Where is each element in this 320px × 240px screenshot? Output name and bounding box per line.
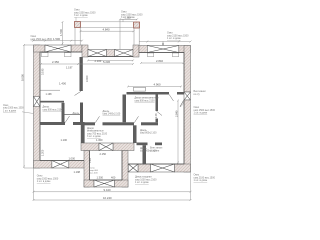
- dim line interior right vertical: [177, 100, 179, 165]
- svg-text:1.200: 1.200: [42, 149, 45, 156]
- svg-text:Дверь: Дверь: [73, 112, 81, 115]
- svg-text:2.350: 2.350: [52, 60, 59, 64]
- leader left note: [22, 112, 34, 114]
- interior wall H vertical bath: [133, 125, 137, 143]
- svg-text:1 шт. в доме: 1 шт. в доме: [37, 180, 51, 183]
- svg-text:1.400: 1.400: [59, 81, 66, 85]
- svg-text:3.195: 3.195: [41, 68, 45, 75]
- wall left exterior: [34, 45, 41, 168]
- svg-text:3 шт. в доме: 3 шт. в доме: [87, 135, 101, 138]
- wall right exterior lower: [184, 100, 191, 172]
- svg-text:1.300: 1.300: [96, 138, 103, 142]
- interior hatched wall above bay: [81, 143, 134, 151]
- window W2 recessed left: [88, 50, 107, 57]
- door swing entrance: [180, 100, 184, 107]
- svg-text:шир.1400х2.100: шир.1400х2.100: [103, 113, 121, 116]
- annotation M7: [150, 147, 163, 153]
- window W4 reveal sills: [147, 53, 179, 57]
- window W1 top-left: [45, 45, 71, 52]
- pier P1 support lines to wall: [75, 28, 80, 46]
- svg-text:шир.800х2.100: шир.800х2.100: [140, 132, 157, 135]
- svg-text:4.960: 4.960: [154, 83, 161, 87]
- dim line porch door 2.100: [87, 59, 134, 61]
- annotation M1 door note left: [43, 106, 64, 112]
- svg-text:из с/у: из с/у: [194, 93, 201, 96]
- leader T1: [75, 17, 77, 22]
- svg-text:1.500: 1.500: [59, 29, 63, 36]
- bay right wall: [122, 151, 128, 188]
- svg-text:2.04: 2.04: [155, 113, 158, 118]
- bay left wall: [84, 151, 90, 188]
- svg-text:1.500: 1.500: [53, 37, 60, 41]
- svg-text:2.840: 2.840: [156, 59, 163, 63]
- svg-text:шир.800 выс.2100: шир.800 выс.2100: [43, 108, 64, 111]
- svg-text:шир.1500 выс.1500: шир.1500 выс.1500: [3, 108, 24, 110]
- window W8 bay bottom: [94, 180, 115, 187]
- wall top-middle recessed: [107, 50, 115, 57]
- wall step-right block: [133, 45, 139, 57]
- interior wall A horizontal upper-left: [40, 101, 64, 103]
- svg-text:1 шт. в доме: 1 шт. в доме: [3, 110, 17, 112]
- dim line interior upper rooms: [40, 63, 134, 65]
- door swing wall K: [157, 111, 163, 115]
- annotation M4 door note 4 lines: [87, 127, 108, 138]
- dim line interior upper-right room: [140, 62, 185, 64]
- wall bottom-left exterior: [34, 161, 89, 169]
- svg-text:шир.800 выс.2100: шир.800 выс.2100: [135, 99, 156, 102]
- interior wall J vertical to bottom: [143, 145, 147, 164]
- closet line: [64, 113, 81, 115]
- svg-text:1.100: 1.100: [61, 138, 68, 142]
- annotation T6 right note: [194, 106, 216, 115]
- kitchen counter line: [40, 89, 60, 91]
- dim line vertical x120: [119, 19, 121, 49]
- svg-text:400: 400: [111, 175, 116, 179]
- svg-text:1.000: 1.000: [69, 157, 76, 161]
- svg-text:1 шт. в доме: 1 шт. в доме: [194, 112, 208, 115]
- interior wall K vertical bedroom divider: [156, 95, 159, 123]
- svg-text:5.236: 5.236: [103, 60, 110, 64]
- bay bottom wall: [84, 180, 128, 187]
- annotation M5: [140, 129, 157, 135]
- dim line top-right: [139, 41, 192, 43]
- svg-text:2.150: 2.150: [100, 152, 107, 156]
- interior wall C horizontal left: [40, 122, 85, 125]
- svg-text:9.000: 9.000: [20, 74, 24, 81]
- door entrance right wall: [184, 92, 191, 100]
- window W6 bottom-right: [151, 164, 175, 172]
- svg-text:1.197: 1.197: [66, 66, 73, 70]
- window W1 reveal sills: [42, 53, 72, 57]
- annotation T4 window note top-left: [31, 35, 53, 41]
- window W7 bottom-left: [52, 161, 69, 169]
- interior wall F horizontal right: [127, 92, 185, 95]
- annotation T5 right door note: [194, 90, 207, 96]
- svg-text:1.90: 1.90: [89, 158, 92, 163]
- svg-text:1.198: 1.198: [74, 170, 81, 174]
- pier P1 canopy column: [75, 22, 81, 28]
- interior wall I horizontal bath: [137, 143, 163, 146]
- wall inner face lines: [40, 52, 184, 180]
- door swing kitchen: [75, 91, 82, 95]
- annotation M2: [73, 112, 81, 115]
- dim line small top: [119, 18, 138, 20]
- legend box: [134, 87, 146, 91]
- svg-text:шир.1500 выс.1500: шир.1500 выс.1500: [31, 38, 53, 41]
- window W9 interior bay wall: [99, 143, 113, 151]
- wall top-left exterior: [34, 45, 83, 52]
- annotation M8 doors note right: [135, 97, 160, 103]
- svg-text:1 шт. в доме: 1 шт. в доме: [135, 181, 149, 184]
- annotation B2 bay note: [90, 168, 99, 175]
- svg-text:1 шт. в доме: 1 шт. в доме: [194, 179, 208, 182]
- wall bottom-right exterior: [125, 164, 191, 172]
- window W3 recessed right: [115, 50, 134, 57]
- svg-text:3 шт. в доме: 3 шт. в доме: [121, 16, 135, 19]
- interior wall B vertical: [62, 103, 65, 122]
- door swing wall F: [169, 95, 173, 102]
- annotation B3 bottom-middle note: [135, 176, 157, 185]
- dim line canopy 4.840: [80, 30, 135, 32]
- window W10 left wall: [34, 97, 41, 107]
- svg-text:Окно: Окно: [3, 105, 9, 107]
- pier P2 support lines to wall: [134, 28, 139, 45]
- svg-text:10.240: 10.240: [103, 196, 112, 200]
- svg-text:1.198: 1.198: [46, 93, 53, 96]
- dim line top-left: [32, 40, 83, 42]
- wall step-left block: [82, 45, 88, 57]
- svg-text:1.300: 1.300: [97, 175, 104, 179]
- wall right exterior upper: [184, 46, 191, 93]
- svg-text:2.840: 2.840: [174, 110, 178, 117]
- annotation T1 window note top-center: [74, 9, 96, 18]
- interior wall E vertical to bay: [81, 125, 85, 143]
- annotation left wall note: [3, 105, 24, 113]
- svg-text:выс.400: выс.400: [90, 173, 99, 175]
- annotation B1 bottom-left note: [37, 175, 59, 184]
- dim line bottom 2: [33, 199, 192, 201]
- svg-text:3 шт. в доме: 3 шт. в доме: [74, 14, 88, 17]
- leader arrow to window W4: [162, 42, 164, 46]
- interior wall G vertical: [123, 95, 127, 123]
- annotation M6: [140, 147, 157, 153]
- wall top-right exterior: [139, 46, 191, 53]
- svg-text:из кухни: из кухни: [150, 149, 160, 152]
- dim line interior hall 4.960: [127, 86, 182, 88]
- dim line bottom 1: [33, 168, 192, 200]
- interior wall kitchen divider vertical: [80, 57, 83, 91]
- dim line left side 9.000: [23, 44, 33, 168]
- annotation B4 bottom-right note: [194, 174, 216, 183]
- svg-text:2.100: 2.100: [95, 59, 102, 63]
- svg-text:9.440: 9.440: [104, 188, 111, 192]
- pier P2 canopy column: [134, 22, 140, 28]
- annotation T2 window note top-center-right: [121, 11, 143, 20]
- interior wall D horizontal middle: [85, 122, 159, 125]
- window W4 top-right: [147, 46, 179, 53]
- svg-text:3.000: 3.000: [85, 75, 89, 82]
- dim line vertical x62: [62, 21, 64, 45]
- interior wall corridor vertical lower: [80, 103, 83, 123]
- annotation T3 window note top-right: [167, 32, 189, 41]
- door swing wall C: [65, 116, 69, 123]
- svg-text:4.840: 4.840: [103, 28, 110, 32]
- annotation M3 door note middle: [103, 110, 121, 116]
- svg-text:1 шт. в доме: 1 шт. в доме: [167, 37, 181, 40]
- door swing wall D: [95, 116, 138, 123]
- leader T2: [122, 19, 124, 22]
- window W5 bottom-right small: [128, 164, 138, 172]
- canopy edge lines: [81, 22, 134, 28]
